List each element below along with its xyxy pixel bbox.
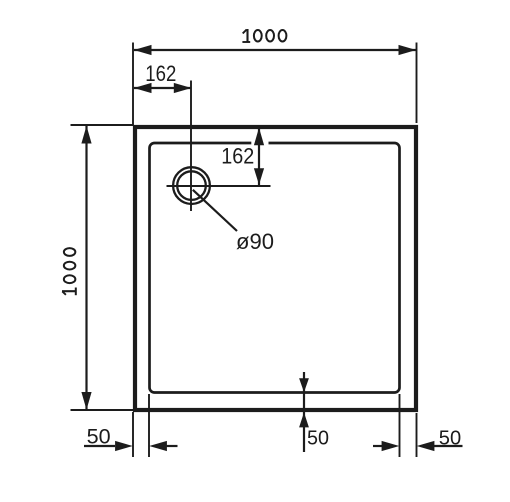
dim 1000 top: extension line left xyxy=(132,43,134,126)
dim 1000 top: right arrowhead xyxy=(399,45,417,55)
dim 162 vertical: top arrowhead xyxy=(254,128,264,146)
dim 50 bottom-left: right arrowhead xyxy=(149,441,167,451)
dim 162 top: right arrowhead xyxy=(174,83,192,93)
dim 50 bottom-middle: dimension line vertical xyxy=(303,372,305,452)
dim 50 bottom-left: extension line outer edge xyxy=(132,412,134,457)
dim 1000 left: bottom arrowhead xyxy=(81,392,91,410)
drain centerline horizontal xyxy=(167,185,271,187)
dim 50 bottom-right: left tail line xyxy=(373,445,383,447)
drain inner circle xyxy=(177,171,206,200)
tray inner rectangle xyxy=(150,143,400,393)
svg-text:162: 162 xyxy=(145,61,176,86)
leader line ø90 xyxy=(193,190,237,231)
dim 162 top: left arrowhead xyxy=(134,83,152,93)
dim 50 bottom-left: left arrowhead xyxy=(115,441,133,451)
label 1000 top xyxy=(242,29,286,42)
dim 50 bottom-right: extension line inner edge xyxy=(399,394,401,457)
svg-text:50: 50 xyxy=(439,426,461,449)
dim 50 bottom-left: extension line inner edge xyxy=(148,394,150,457)
dim 1000 top: dimension line xyxy=(134,49,416,51)
tray outer rectangle xyxy=(135,127,416,410)
drain centerline vertical xyxy=(190,81,192,212)
svg-text:50: 50 xyxy=(87,426,111,449)
dim 50 bottom-middle: bottom arrowhead xyxy=(299,412,309,427)
label 1000 left (rotated) xyxy=(62,248,76,295)
dim 162 vertical: dimension line xyxy=(258,129,260,186)
dim 50 bottom-left: left tail line xyxy=(84,445,115,447)
dim 1000 left: top arrowhead xyxy=(81,126,91,144)
svg-text:50: 50 xyxy=(307,428,329,450)
dim 50 bottom-right: extension line outer edge xyxy=(416,413,418,457)
dim 162 top: dimension line xyxy=(134,87,191,89)
dim 50 bottom-right: right arrowhead xyxy=(417,441,435,451)
dim 1000 left: dimension line xyxy=(85,126,87,410)
dim 50 bottom-left: right tail line xyxy=(167,445,178,447)
inner rectangle edge break at dim 162 (white mask) xyxy=(251,141,268,145)
dim 1000 top: extension line right xyxy=(416,43,418,124)
dim 50 bottom-right: right tail line xyxy=(434,445,463,447)
svg-text:ø90: ø90 xyxy=(236,229,274,254)
drain outer circle xyxy=(173,167,210,204)
dim 50 bottom-middle: top arrowhead xyxy=(299,378,309,392)
dim 162 vertical: bottom arrowhead xyxy=(254,168,264,185)
svg-text:162: 162 xyxy=(221,144,254,169)
dim 50 bottom-right: left arrowhead xyxy=(382,441,400,451)
dim 1000 left: extension line bottom xyxy=(71,409,134,411)
dim 1000 left: extension line top xyxy=(71,124,134,126)
dim 1000 top: left arrowhead xyxy=(134,45,152,55)
